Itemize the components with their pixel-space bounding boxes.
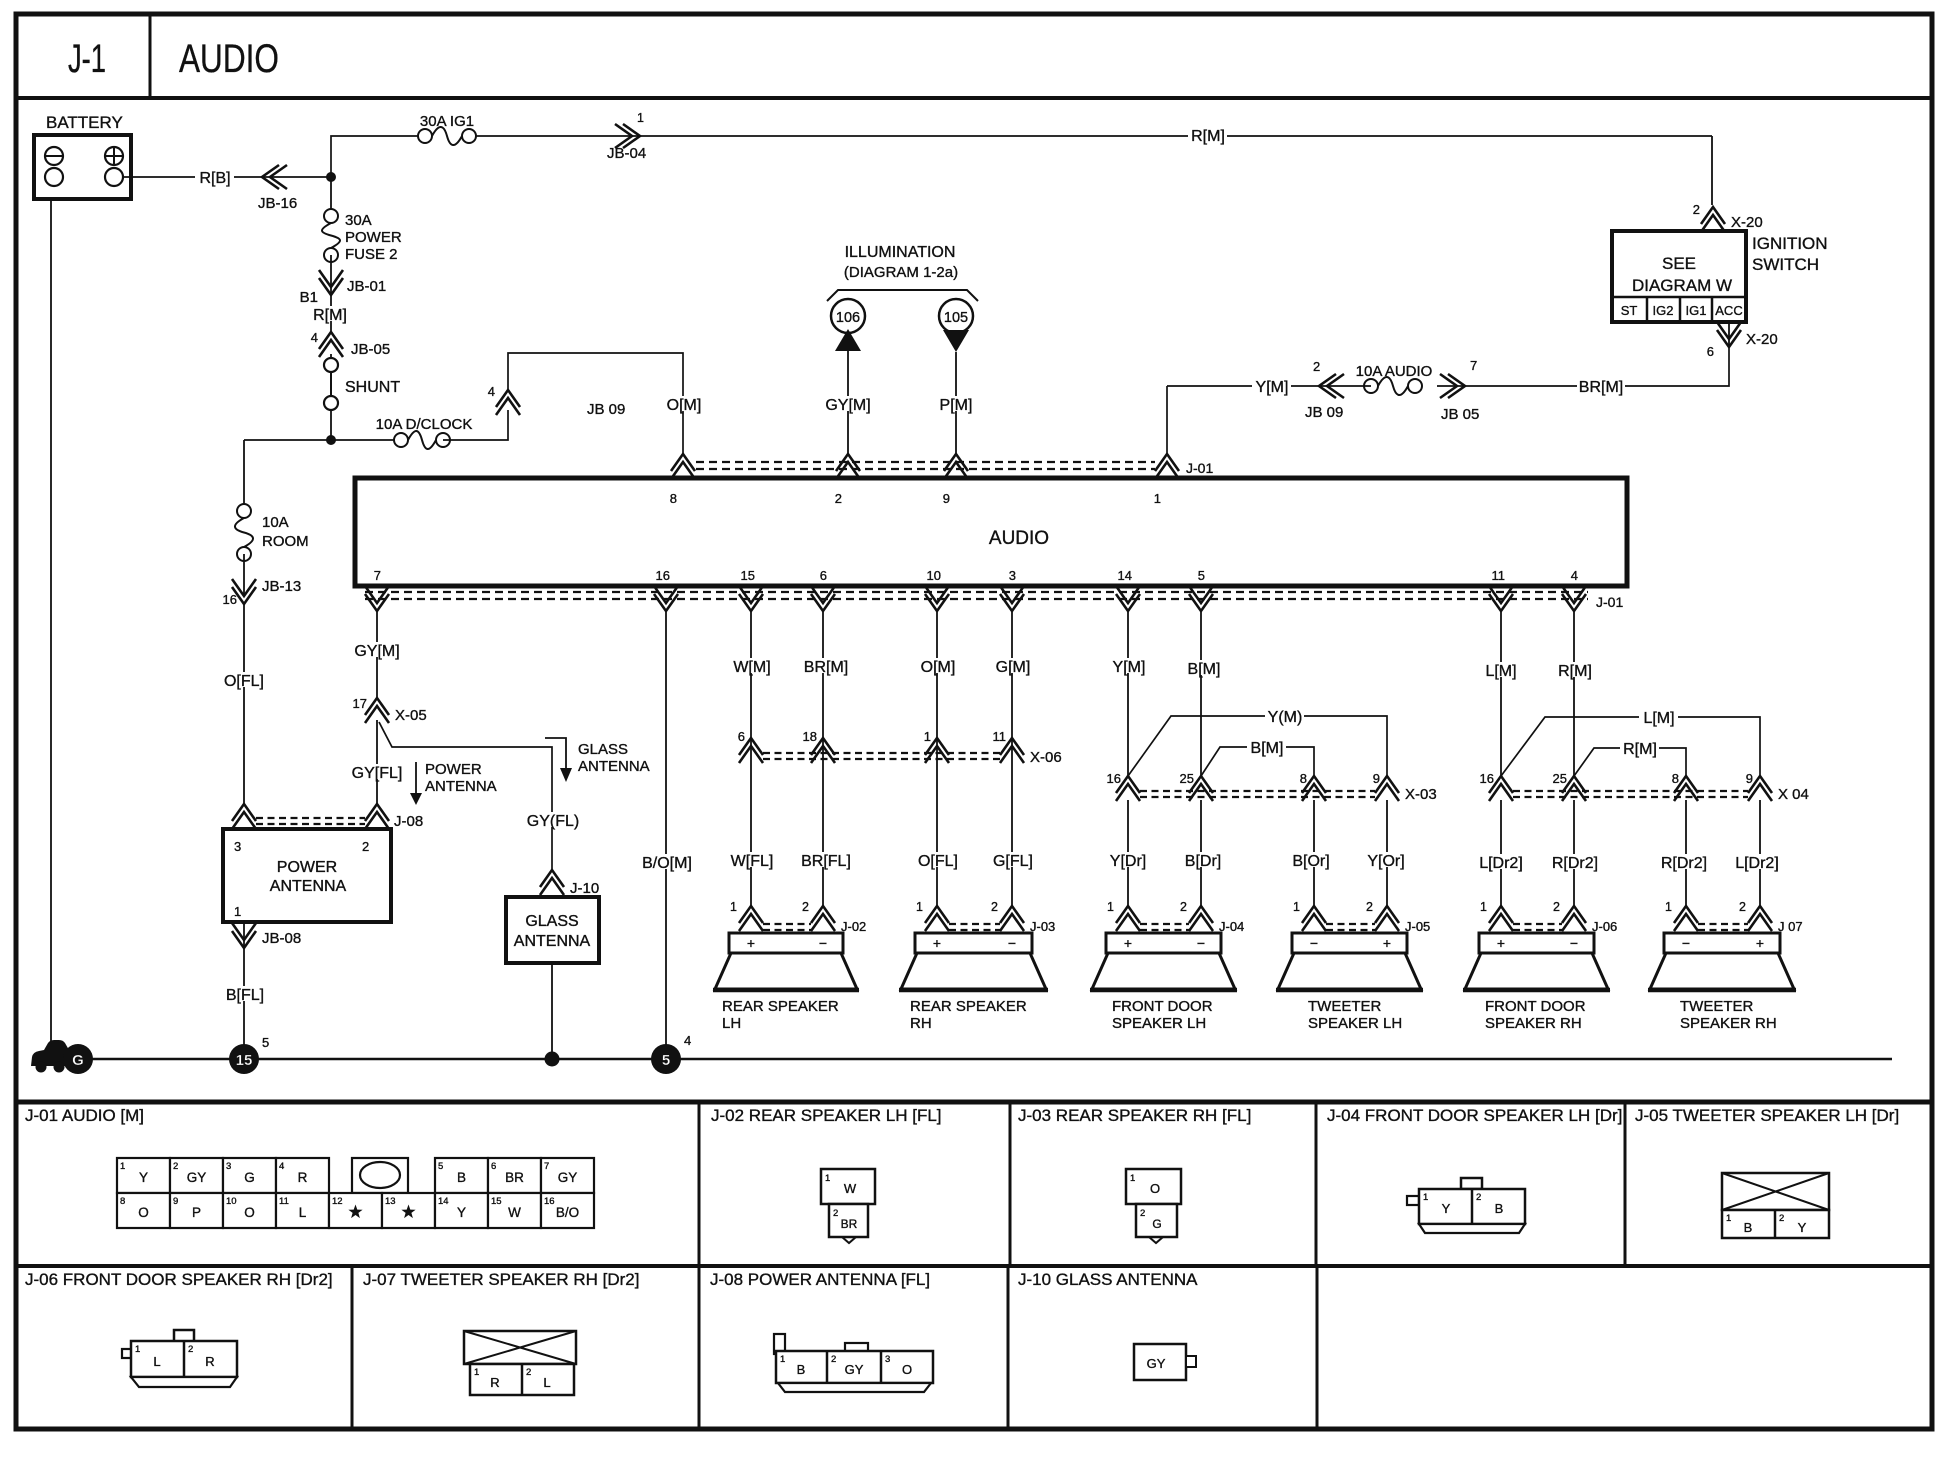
svg-text:+: + [933, 935, 941, 951]
svg-text:W[M]: W[M] [733, 659, 770, 676]
wire R[Dr2] right [1656, 800, 1713, 906]
svg-text:3: 3 [234, 839, 241, 854]
svg-text:11: 11 [993, 729, 1007, 744]
table headers row 1 [25, 1106, 1899, 1125]
svg-text:B: B [457, 1170, 466, 1185]
svg-text:ANTENNA: ANTENNA [270, 878, 347, 895]
svg-text:R[Dr2]: R[Dr2] [1661, 855, 1707, 872]
svg-text:4: 4 [684, 1033, 691, 1048]
svg-text:1: 1 [234, 904, 241, 919]
svg-text:2: 2 [526, 1367, 531, 1378]
svg-text:J-01: J-01 [1186, 460, 1213, 476]
svg-text:O[M]: O[M] [667, 397, 702, 414]
svg-text:Y: Y [457, 1205, 466, 1220]
svg-text:GY(FL): GY(FL) [527, 813, 579, 830]
connector X-20 pin 6 [1707, 322, 1778, 359]
svg-text:B[Dr]: B[Dr] [1185, 853, 1221, 870]
svg-text:SPEAKER RH: SPEAKER RH [1485, 1015, 1582, 1032]
wire ACC down [1728, 322, 1730, 347]
svg-text:18: 18 [803, 729, 817, 744]
wire L[Dr2] right [1729, 800, 1786, 906]
svg-text:2: 2 [802, 900, 809, 914]
svg-text:G: G [72, 1052, 84, 1069]
svg-text:L: L [153, 1354, 160, 1369]
svg-text:P[M]: P[M] [940, 397, 973, 414]
fuse 10A D/CLOCK [376, 416, 473, 449]
connector J-05 pinout [1722, 1173, 1829, 1238]
svg-text:B[FL]: B[FL] [226, 987, 264, 1004]
wire junction down [330, 177, 332, 216]
speaker tweeter LH [1276, 933, 1423, 1032]
svg-text:11: 11 [1492, 568, 1506, 583]
svg-text:AUDIO: AUDIO [179, 37, 279, 81]
fuse 10A AUDIO [1356, 363, 1433, 395]
svg-text:J 07: J 07 [1778, 919, 1803, 934]
connector J-08 pinout [774, 1334, 933, 1392]
wire battery negative to ground [50, 199, 52, 1050]
svg-text:105: 105 [944, 310, 968, 326]
svg-text:IG1: IG1 [1686, 303, 1707, 318]
svg-text:6: 6 [820, 568, 827, 583]
svg-text:6: 6 [491, 1161, 496, 1172]
svg-text:4: 4 [279, 1161, 284, 1172]
svg-text:BR[M]: BR[M] [1579, 379, 1623, 396]
svg-text:−: − [1570, 935, 1578, 951]
svg-text:2: 2 [1553, 900, 1560, 914]
connector J-10 pinout [1134, 1344, 1196, 1380]
svg-text:1: 1 [474, 1367, 479, 1378]
wire B/O[M] pin 16 to ground node 5 [639, 612, 696, 1045]
svg-text:Y: Y [139, 1170, 148, 1185]
node 106 [831, 299, 865, 351]
svg-text:FUSE 2: FUSE 2 [345, 246, 398, 263]
svg-text:GY[M]: GY[M] [825, 397, 870, 414]
svg-text:1: 1 [730, 900, 737, 914]
svg-text:O: O [138, 1205, 149, 1220]
connector J-03 bus [916, 900, 1055, 934]
connector J-07 bus [1665, 900, 1803, 934]
shunt [324, 358, 400, 410]
svg-text:6: 6 [738, 729, 745, 744]
svg-text:R: R [205, 1354, 214, 1369]
svg-text:L[Dr2]: L[Dr2] [1479, 855, 1523, 872]
svg-text:GY: GY [558, 1170, 578, 1185]
svg-text:+: + [1756, 935, 1764, 951]
svg-text:SHUNT: SHUNT [345, 379, 400, 396]
svg-text:R[M]: R[M] [313, 307, 347, 324]
svg-text:G[M]: G[M] [996, 659, 1031, 676]
svg-text:17: 17 [353, 696, 367, 711]
svg-text:1: 1 [1665, 900, 1672, 914]
svg-text:1: 1 [135, 1344, 140, 1355]
svg-text:FRONT DOOR: FRONT DOOR [1112, 998, 1213, 1015]
node D/CLOCK junction [327, 436, 336, 445]
connector J-05 bus [1293, 900, 1430, 934]
svg-text:GLASS: GLASS [578, 741, 628, 758]
svg-text:JB 09: JB 09 [587, 401, 625, 418]
svg-text:W: W [844, 1181, 857, 1196]
svg-text:GY: GY [1147, 1356, 1166, 1371]
wire P[M] to AUDIO pin 9 [936, 352, 975, 454]
svg-text:1: 1 [1293, 900, 1300, 914]
svg-text:B[M]: B[M] [1188, 661, 1221, 678]
svg-text:+: + [1383, 935, 1391, 951]
svg-text:2: 2 [188, 1344, 193, 1355]
svg-text:ANTENNA: ANTENNA [425, 778, 497, 795]
svg-text:2: 2 [833, 1208, 838, 1219]
glass antenna [506, 897, 599, 963]
connector X-05 pin 17 [353, 696, 427, 724]
svg-text:GY: GY [845, 1362, 864, 1377]
svg-text:15: 15 [236, 1052, 253, 1069]
wire R[M] pin 4 [1555, 612, 1594, 776]
svg-text:16: 16 [223, 592, 237, 607]
speaker tweeter RH [1648, 933, 1796, 1032]
ground node 15 [229, 1035, 269, 1074]
svg-text:J-04: J-04 [1219, 919, 1244, 934]
svg-text:1: 1 [1107, 900, 1114, 914]
svg-text:15: 15 [741, 568, 755, 583]
svg-text:3: 3 [885, 1354, 890, 1365]
svg-text:B/O[M]: B/O[M] [642, 855, 692, 872]
svg-text:1: 1 [120, 1161, 125, 1172]
wire to JB-09 riser [443, 410, 508, 440]
wire JB-09 to AUDIO pin 8 [508, 353, 703, 454]
svg-text:G: G [1152, 1217, 1161, 1231]
svg-text:GY: GY [187, 1170, 207, 1185]
svg-text:Y: Y [1798, 1220, 1807, 1235]
svg-text:LH: LH [722, 1015, 741, 1032]
wire R[M] crossover to X-04 pin 8 [1574, 740, 1686, 776]
table headers row 2 [25, 1270, 1198, 1289]
svg-text:J-10: J-10 [570, 880, 599, 897]
svg-text:8: 8 [1672, 771, 1679, 786]
svg-text:2: 2 [831, 1354, 836, 1365]
svg-text:Y: Y [1442, 1201, 1451, 1216]
svg-text:2: 2 [1313, 359, 1320, 374]
wire GY[FL] to power antenna pin 2 [349, 720, 406, 804]
svg-text:11: 11 [279, 1196, 289, 1207]
svg-text:2: 2 [1739, 900, 1746, 914]
svg-text:R[B]: R[B] [199, 170, 230, 187]
svg-text:J-02 REAR SPEAKER LH [FL]: J-02 REAR SPEAKER LH [FL] [711, 1106, 942, 1125]
wire L[M] pin 11 [1481, 612, 1520, 776]
svg-text:2: 2 [991, 900, 998, 914]
wire B[Dr] [1179, 800, 1227, 906]
svg-text:5: 5 [262, 1035, 269, 1050]
wire Y[M] to AUDIO pin 1 [1167, 378, 1371, 454]
svg-text:9: 9 [1373, 771, 1380, 786]
wire W[M]/W[FL] pin 15 [728, 612, 776, 906]
svg-text:SPEAKER LH: SPEAKER LH [1112, 1015, 1206, 1032]
svg-text:FRONT DOOR: FRONT DOOR [1485, 998, 1586, 1015]
svg-text:1: 1 [1480, 900, 1487, 914]
svg-text:(DIAGRAM 1-2a): (DIAGRAM 1-2a) [844, 264, 958, 281]
wire BR[M] ACC to 10A AUDIO [1437, 347, 1729, 396]
svg-text:J-1: J-1 [68, 37, 106, 81]
svg-text:Y[Or]: Y[Or] [1367, 853, 1404, 870]
wire R[Dr2] [1547, 800, 1604, 906]
illumination callout [827, 244, 978, 301]
wire O[M]/O[FL] pin 10 [914, 612, 962, 906]
svg-text:2: 2 [1140, 1208, 1145, 1219]
svg-text:R[M]: R[M] [1623, 741, 1657, 758]
svg-text:O[FL]: O[FL] [918, 853, 958, 870]
svg-text:8: 8 [670, 491, 677, 506]
svg-text:16: 16 [1480, 771, 1494, 786]
svg-text:POWER: POWER [425, 761, 482, 778]
connector J-02 bus [730, 900, 866, 934]
svg-text:8: 8 [1300, 771, 1307, 786]
svg-text:JB-16: JB-16 [258, 195, 297, 212]
connector J-08 bus [232, 804, 423, 830]
wire top feed to ignition switch [331, 127, 1712, 205]
svg-text:6: 6 [1707, 344, 1714, 359]
wire O[FL] to power antenna [220, 604, 268, 804]
speaker rear LH [713, 933, 859, 1032]
connector JB-04 [607, 111, 646, 162]
svg-text:ILLUMINATION: ILLUMINATION [845, 244, 956, 261]
svg-text:10A: 10A [262, 514, 289, 531]
svg-text:GLASS: GLASS [525, 913, 578, 930]
svg-text:W[FL]: W[FL] [731, 853, 774, 870]
connector X-04 [1480, 771, 1809, 803]
svg-text:−: − [1682, 935, 1690, 951]
connector J-01 bottom bus [365, 586, 1623, 611]
svg-text:1: 1 [825, 1173, 830, 1184]
svg-text:X-20: X-20 [1731, 214, 1763, 231]
svg-text:ACC: ACC [1715, 303, 1742, 318]
svg-text:ROOM: ROOM [262, 533, 309, 550]
svg-text:J-03 REAR SPEAKER RH [FL]: J-03 REAR SPEAKER RH [FL] [1018, 1106, 1251, 1125]
speaker rear RH [899, 933, 1048, 1032]
svg-text:JB-05: JB-05 [351, 341, 390, 358]
svg-text:JB-08: JB-08 [262, 930, 301, 947]
power antenna [223, 829, 391, 922]
fuse 30A IG1 [418, 113, 476, 145]
svg-text:−: − [1197, 935, 1205, 951]
svg-text:−: − [1008, 935, 1016, 951]
svg-text:5: 5 [438, 1161, 443, 1172]
ground symbol G [31, 1040, 93, 1074]
svg-text:106: 106 [836, 310, 860, 326]
svg-text:Y[Dr]: Y[Dr] [1110, 853, 1146, 870]
wire Y[M] pin 14 [1109, 612, 1148, 776]
svg-text:SWITCH: SWITCH [1752, 255, 1819, 274]
ignition switch SEE DIAGRAM W [1612, 231, 1828, 322]
svg-text:Y[M]: Y[M] [1256, 379, 1289, 396]
svg-text:5: 5 [1198, 568, 1205, 583]
svg-text:R[Dr2]: R[Dr2] [1552, 855, 1598, 872]
wire L[M] crossover to X-04 pin 9 [1501, 709, 1760, 776]
battery [34, 113, 131, 199]
svg-text:G: G [244, 1170, 255, 1185]
svg-text:BR[M]: BR[M] [804, 659, 848, 676]
wire junction to 10A D/CLOCK [244, 439, 401, 441]
svg-text:2: 2 [173, 1161, 178, 1172]
connector J-03 pinout [1126, 1169, 1181, 1243]
svg-text:POWER: POWER [277, 859, 337, 876]
connector JB-08 pin 1 [232, 922, 301, 948]
svg-text:BR[FL]: BR[FL] [801, 853, 851, 870]
svg-text:8: 8 [120, 1196, 125, 1207]
svg-text:3: 3 [1009, 568, 1016, 583]
svg-text:X-06: X-06 [1030, 749, 1062, 766]
svg-text:O[FL]: O[FL] [224, 673, 264, 690]
svg-text:2: 2 [1779, 1213, 1784, 1224]
svg-text:AUDIO: AUDIO [989, 528, 1049, 549]
svg-text:7: 7 [544, 1161, 549, 1172]
connector X-03 [1107, 771, 1437, 803]
svg-text:RH: RH [910, 1015, 932, 1032]
svg-text:9: 9 [1746, 771, 1753, 786]
svg-text:3: 3 [226, 1161, 231, 1172]
svg-text:2: 2 [1693, 202, 1700, 217]
svg-text:1: 1 [637, 111, 644, 125]
svg-text:30A: 30A [345, 212, 372, 229]
svg-text:J-05: J-05 [1405, 919, 1430, 934]
svg-text:ANTENNA: ANTENNA [514, 933, 591, 950]
svg-text:16: 16 [544, 1196, 555, 1207]
connector J-10 [540, 870, 599, 897]
connector JB-01 pin B1 [300, 270, 387, 306]
svg-text:JB-13: JB-13 [262, 578, 301, 595]
svg-text:9: 9 [173, 1196, 178, 1207]
connector J-06 bus [1480, 900, 1617, 934]
svg-text:R: R [490, 1375, 499, 1390]
audio unit [355, 478, 1627, 586]
svg-text:4: 4 [1571, 568, 1578, 583]
svg-text:16: 16 [1107, 771, 1121, 786]
svg-text:TWEETER: TWEETER [1308, 998, 1381, 1015]
svg-text:ANTENNA: ANTENNA [578, 758, 650, 775]
svg-text:10: 10 [927, 568, 941, 583]
svg-text:G[FL]: G[FL] [993, 853, 1033, 870]
svg-text:B: B [797, 1362, 806, 1377]
svg-text:J-01: J-01 [1596, 594, 1623, 610]
svg-text:−: − [1310, 935, 1318, 951]
svg-text:+: + [1124, 935, 1132, 951]
svg-text:O: O [902, 1362, 912, 1377]
svg-text:J-06: J-06 [1592, 919, 1617, 934]
svg-text:25: 25 [1180, 771, 1194, 786]
svg-text:2: 2 [1180, 900, 1187, 914]
svg-text:JB 09: JB 09 [1305, 404, 1343, 421]
svg-text:J-10 GLASS ANTENNA: J-10 GLASS ANTENNA [1018, 1270, 1198, 1289]
svg-text:B: B [1495, 1201, 1504, 1216]
wire GY[M] pin 7 to X-05 [353, 612, 401, 698]
wire B[M] crossover to X-03 pin 8 [1201, 739, 1314, 776]
connector J-02 pinout [821, 1169, 875, 1243]
svg-text:REAR SPEAKER: REAR SPEAKER [910, 998, 1027, 1015]
svg-text:1: 1 [1726, 1213, 1731, 1224]
svg-text:1: 1 [924, 729, 931, 744]
fuse 30A POWER FUSE 2 [322, 209, 402, 263]
fuse 10A ROOM [235, 504, 309, 561]
connector J-06 pinout [122, 1330, 237, 1387]
wire B[M] pin 5 [1184, 612, 1223, 776]
svg-text:14: 14 [1118, 568, 1132, 583]
svg-text:BR: BR [505, 1170, 524, 1185]
svg-text:J-02: J-02 [841, 919, 866, 934]
svg-text:JB-01: JB-01 [347, 278, 386, 295]
svg-text:2: 2 [362, 839, 369, 854]
svg-text:L[Dr2]: L[Dr2] [1735, 855, 1779, 872]
svg-text:O: O [244, 1205, 255, 1220]
svg-text:4: 4 [488, 384, 495, 399]
ground bus [90, 1058, 1892, 1061]
connector J-07 pinout [464, 1331, 576, 1395]
wire Y[Dr] [1104, 800, 1152, 906]
svg-text:J-03: J-03 [1030, 919, 1055, 934]
connector X-20 pin 2 [1693, 202, 1763, 232]
svg-text:R[M]: R[M] [1191, 128, 1225, 145]
connector table grid [16, 1102, 1932, 1429]
wire R[M] [310, 295, 349, 332]
ground node 5 [651, 1033, 691, 1074]
connector J-01 top bus [670, 454, 1214, 506]
wire Y[Or] [1362, 800, 1410, 906]
svg-text:7: 7 [1470, 358, 1477, 373]
svg-text:9: 9 [943, 491, 950, 506]
svg-text:IGNITION: IGNITION [1752, 234, 1828, 253]
svg-text:L: L [299, 1205, 307, 1220]
svg-text:10A AUDIO: 10A AUDIO [1356, 363, 1433, 380]
wire branch to glass antenna [379, 722, 582, 870]
svg-text:X-05: X-05 [395, 707, 427, 724]
svg-text:30A IG1: 30A IG1 [420, 113, 474, 130]
wire L[Dr2] [1473, 800, 1530, 906]
svg-text:POWER: POWER [345, 229, 402, 246]
svg-text:R[M]: R[M] [1558, 663, 1592, 680]
svg-text:10: 10 [226, 1196, 237, 1207]
connector JB-09 pin 2 [1305, 359, 1344, 421]
svg-text:14: 14 [438, 1196, 449, 1207]
svg-text:L[M]: L[M] [1643, 710, 1674, 727]
svg-text:4: 4 [311, 330, 318, 345]
svg-text:25: 25 [1553, 771, 1567, 786]
svg-text:2: 2 [835, 491, 842, 506]
wire to 10A ROOM [243, 440, 245, 511]
svg-text:IG2: IG2 [1653, 303, 1674, 318]
svg-text:REAR SPEAKER: REAR SPEAKER [722, 998, 839, 1015]
svg-text:B1: B1 [300, 289, 318, 306]
svg-text:1: 1 [1423, 1192, 1428, 1203]
speaker front door RH [1463, 933, 1610, 1032]
svg-text:R: R [298, 1170, 308, 1185]
node 105 [939, 299, 973, 352]
svg-text:13: 13 [385, 1196, 396, 1207]
svg-text:O[M]: O[M] [921, 659, 956, 676]
connector JB-09 pin 4 [488, 384, 626, 418]
svg-text:7: 7 [374, 568, 381, 583]
svg-text:SEE: SEE [1662, 254, 1696, 273]
svg-text:+: + [1497, 935, 1505, 951]
svg-text:12: 12 [332, 1196, 343, 1207]
wire G[M]/G[FL] pin 3 [989, 612, 1037, 906]
wire B[FL] to ground node 15 [221, 948, 269, 1045]
svg-text:J-01 AUDIO [M]: J-01 AUDIO [M] [25, 1106, 144, 1125]
ground junction dot [545, 1052, 560, 1067]
svg-text:L[M]: L[M] [1485, 663, 1516, 680]
connector JB-05 pin 4 [311, 330, 390, 358]
power antenna callout arrow [410, 761, 497, 805]
speaker front door LH [1090, 933, 1237, 1032]
svg-text:2: 2 [1476, 1192, 1481, 1203]
svg-text:JB-04: JB-04 [607, 145, 646, 162]
svg-text:J-08 POWER ANTENNA [FL]: J-08 POWER ANTENNA [FL] [710, 1270, 930, 1289]
svg-text:L: L [543, 1375, 550, 1390]
